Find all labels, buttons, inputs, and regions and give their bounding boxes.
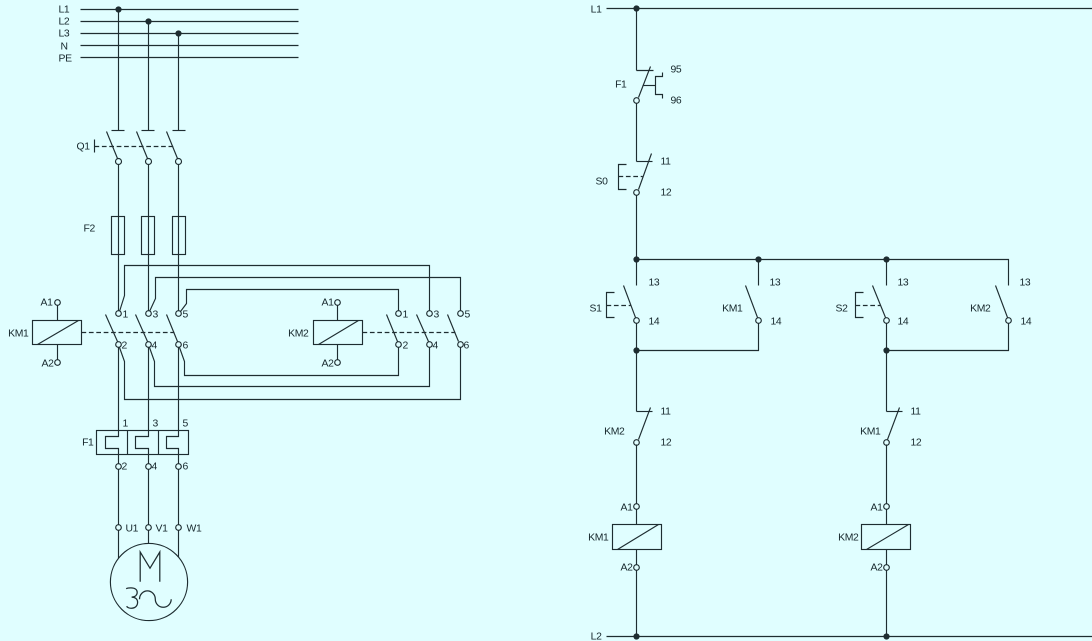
net L2 control rail [591,632,1092,641]
wire S0 to bus [636,196,638,260]
svg-text:4: 4 [433,341,439,352]
coil KM1 [588,503,661,574]
junction S1/KM1 [633,347,639,353]
wire W1 into motor [178,531,180,558]
svg-text:1: 1 [123,419,129,430]
svg-text:KM1: KM1 [588,533,609,544]
svg-text:L2: L2 [59,17,70,28]
svg-text:KM2: KM2 [604,427,625,438]
mechanical link KM2 coil to contacts (dashed) [363,332,456,334]
svg-text:2: 2 [122,462,128,473]
wire S1 14 down [636,324,638,351]
contact KM2 auxiliary 13-14 (hold-in) [970,278,1032,328]
svg-text:N: N [61,42,68,53]
svg-text:S1: S1 [589,304,602,315]
svg-text:A1: A1 [870,503,883,514]
net L1 control rail [591,5,1092,16]
contact KM2 pole 5-6 top terminal [448,311,464,348]
svg-text:S0: S0 [595,177,608,188]
wire F1 terminal 4 to motor [148,470,150,525]
contact KM2 pole 3-4 top terminal [417,311,433,348]
wire coil KM1 to L2 [636,571,638,637]
svg-text:4: 4 [152,341,158,352]
wire KM1 terminal 4 to KM2 terminal 4 [150,348,430,387]
svg-text:KM1: KM1 [722,304,743,315]
contact KM1 auxiliary 13-14 (hold-in) [722,260,782,328]
junction L3 tap [175,30,181,36]
svg-text:A2: A2 [321,359,334,370]
coil KM2 [838,503,910,574]
wire KM1 aux 14 down and across [637,324,759,351]
svg-text:L1: L1 [591,5,602,16]
svg-text:12: 12 [911,438,922,449]
svg-text:12: 12 [661,438,672,449]
wire F1 terminal 6 to motor [178,470,180,525]
net L3 supply rail [59,29,299,40]
svg-text:A2: A2 [41,359,54,370]
svg-text:11: 11 [661,157,672,168]
svg-text:6: 6 [183,462,189,473]
fuse F2 [84,217,186,255]
svg-text:F1: F1 [615,80,627,91]
pin labels KM2 contacts 1 3 5 [403,310,471,321]
contact KM1 pole 5-6 top terminal [167,311,182,348]
svg-text:14: 14 [898,317,909,328]
svg-text:A2: A2 [620,563,633,574]
breaker Q1 [77,131,186,165]
wire KM1 terminal 2 to KM2 terminal 6 (crossover) [120,348,461,400]
junction L2 KM1 [633,633,639,639]
junction L1 tap [115,6,121,12]
contact KM1 pole 3-4 top terminal [136,311,152,348]
svg-text:13: 13 [898,278,909,289]
coil KM2 [288,298,362,370]
svg-text:2: 2 [403,341,409,352]
wire to KM2 interlock [636,351,638,412]
svg-text:L1: L1 [59,5,70,16]
wire F1 terminal 2 to motor [118,470,120,525]
svg-text:14: 14 [649,317,660,328]
svg-text:KM1: KM1 [8,329,29,340]
wire Q1 pole 3 down through F2 to KM1 contact [178,165,180,311]
pin labels F1 2 4 6 [122,462,189,473]
wire branch phase3 to KM2 terminal 1 [181,290,399,312]
wire branch phase1 to KM2 terminal 3 [120,266,430,312]
wire S2 14 down [886,324,888,351]
contact KM1 interlock 11-12 (NC) [860,407,922,449]
svg-text:96: 96 [671,96,682,107]
F1 terminals 2 4 6 [116,464,182,470]
wire Q1 pole 2 down through F2 to KM1 contact [148,165,150,311]
button S0 stop (NC pushbutton) [595,154,671,199]
pin labels F1 1 3 5 [123,419,189,430]
svg-text:13: 13 [649,278,660,289]
svg-text:F2: F2 [84,224,96,235]
motor M1 three-phase [110,543,187,620]
svg-text:14: 14 [1021,317,1032,328]
svg-text:L3: L3 [59,29,70,40]
wire control bus [637,260,1009,286]
svg-text:4: 4 [152,462,158,473]
wire KM1 terminal 6 down to F1 [178,348,180,431]
motor terminals U1 V1 W1 [116,525,182,531]
net PE supply rail [59,54,299,65]
svg-text:KM2: KM2 [838,533,859,544]
svg-text:KM2: KM2 [970,304,991,315]
svg-text:2: 2 [122,341,128,352]
wire to KM1 interlock [886,351,888,412]
svg-text:Q1: Q1 [77,142,91,153]
relay F1 thermal overload [82,431,188,464]
wire KM2 aux 14 down and across [887,324,1009,351]
svg-text:1: 1 [123,310,129,321]
svg-text:A1: A1 [321,298,334,309]
wire KM1 terminal 6 to KM2 terminal 2 (crossover) [180,348,399,376]
wire KM1 12 to coil KM2 [886,445,888,504]
svg-text:S2: S2 [835,304,848,315]
pin labels KM1 contacts 1 3 5 [123,310,189,321]
junction L1 [633,5,639,11]
wire L1 to F1 contact [636,9,638,71]
svg-text:PE: PE [59,54,73,65]
svg-text:1: 1 [403,310,409,321]
svg-text:3: 3 [434,310,440,321]
svg-text:KM2: KM2 [288,329,309,340]
junction S2/KM2 [883,347,889,353]
wire branch phase2 to KM2 terminal 5 [150,278,461,312]
wire coil KM2 to L2 [886,571,888,637]
wire L1 drop to Q1 [118,10,120,131]
svg-text:13: 13 [770,278,781,289]
wire L2 drop to Q1 [148,22,150,131]
svg-text:11: 11 [661,407,672,418]
coil KM1 [8,298,81,370]
svg-text:W1: W1 [187,524,202,535]
wire KM2 12 to coil KM1 [636,445,638,504]
wire F1 to S0 [636,104,638,162]
mechanical link KM1 coil to contacts (dashed) [82,332,175,334]
svg-text:5: 5 [183,310,189,321]
svg-text:L2: L2 [591,632,602,641]
svg-text:3: 3 [153,310,159,321]
svg-text:95: 95 [671,65,682,76]
junction bus KM1 [755,256,761,262]
junction L2 tap [145,18,151,24]
wire U1 into motor [118,531,120,559]
contact KM2 interlock 11-12 (NC) [604,407,672,449]
contact KM1 pole 1-2 top terminal [106,311,122,348]
svg-text:5: 5 [183,419,189,430]
svg-text:F1: F1 [82,438,94,449]
svg-text:6: 6 [464,341,470,352]
net N supply rail [61,42,299,53]
net L2 supply rail [59,17,299,28]
svg-text:A2: A2 [870,563,883,574]
svg-text:11: 11 [911,407,922,418]
svg-text:U1: U1 [126,524,139,535]
wire KM1 terminal 4 down to F1 [148,348,150,431]
svg-text:A1: A1 [620,503,633,514]
wire Q1 pole 1 down through F2 to KM1 contact [118,165,120,311]
svg-text:13: 13 [1020,278,1031,289]
svg-text:3: 3 [153,419,159,430]
svg-text:V1: V1 [156,524,169,535]
svg-text:KM1: KM1 [860,427,881,438]
relay contact F1 95-96 (thermal NC) [615,65,682,107]
wire V1 into motor [148,531,150,544]
svg-text:12: 12 [661,188,672,199]
svg-text:6: 6 [183,341,189,352]
svg-text:5: 5 [465,310,471,321]
wire L3 drop to Q1 [178,34,180,131]
junction bus S2 [883,256,889,262]
junction bus S1 [633,256,639,262]
svg-text:14: 14 [771,317,782,328]
junction L2 KM2 [883,633,889,639]
pin labels U1 V1 W1 [126,524,202,535]
pin labels KM1 contacts 2 4 6 [122,341,189,352]
contact KM2 pole 1-2 top terminal [387,311,402,348]
wire KM1 terminal 2 down to F1 [118,348,120,431]
pin labels KM2 contacts 2 4 6 [403,341,470,352]
button S1 forward start (NO pushbutton) [589,260,659,328]
button S2 reverse start (NO pushbutton) [835,260,908,328]
net L1 supply rail [59,5,299,16]
svg-text:A1: A1 [40,298,53,309]
